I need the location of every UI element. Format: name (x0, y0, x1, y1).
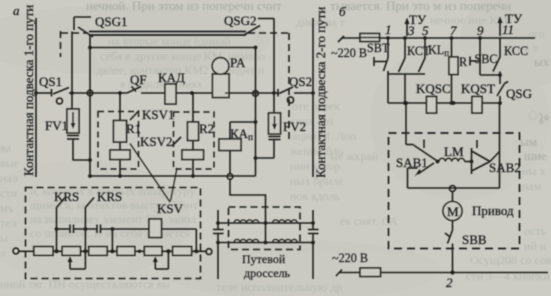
contact KSV1 slash (130, 111, 139, 121)
node junction at x72 (70, 91, 74, 95)
svg-text:Привод: Привод (472, 203, 514, 218)
wire (225, 92, 278, 94)
svg-text:3: 3 (407, 23, 415, 38)
svg-text:Осущ208 со сов: Осущ208 со сов (470, 253, 551, 267)
wire mid (388, 73, 425, 75)
wire resistor chain (19, 250, 34, 252)
dashed box KSV1/R1 (98, 112, 139, 170)
svg-text:ий н: ий н (524, 239, 547, 253)
dashed border part a top (61, 31, 290, 140)
svg-text:KQSC: KQSC (416, 81, 451, 96)
contact KCC (493, 38, 500, 84)
wire 220V bottom (336, 270, 548, 277)
wire to track choke (230, 180, 266, 224)
terminal circle right (206, 249, 212, 255)
svg-text:~220 В: ~220 В (331, 46, 367, 60)
node dot (254, 46, 258, 50)
svg-text:б: б (339, 4, 346, 19)
wire (135, 250, 145, 252)
wire FV2 jog (256, 157, 275, 159)
inductor coils top right (273, 220, 298, 223)
svg-text:R1: R1 (126, 121, 141, 136)
svg-text:KQST: KQST (461, 81, 495, 96)
svg-text:ны х: ны х (522, 164, 545, 178)
wire drops (56, 229, 58, 251)
resistor R (449, 38, 458, 105)
inductor coils bottom left (234, 239, 259, 242)
fuse top (360, 34, 380, 42)
resistor box 5 (144, 247, 162, 256)
telecontrol arrow TU 2 (498, 17, 503, 37)
svg-text:QS2: QS2 (289, 74, 312, 89)
node junction circle at x255 (253, 91, 259, 97)
resistor R2 branch (182, 91, 204, 178)
wire (294, 92, 313, 94)
arrester FV1 (67, 109, 79, 160)
wire (80, 250, 88, 252)
wire (53, 250, 62, 252)
relay KAD coil (165, 84, 176, 104)
svg-text:KSV2: KSV2 (140, 134, 173, 149)
svg-text:нов вдоль: нов вдоль (290, 189, 340, 203)
svg-text:KRS: KRS (54, 189, 79, 204)
svg-text:QSG: QSG (506, 86, 532, 101)
wire motor row (408, 187, 500, 189)
node: catenary line track 1 (35, 18, 37, 177)
wire vertical x90 (89, 35, 91, 176)
contact QSG aux (497, 82, 508, 105)
svg-text:FV2: FV2 (283, 119, 306, 134)
inductor coils bottom right (273, 239, 298, 242)
contact KRS 2 (85, 198, 94, 208)
svg-text:Контактная подвеска 1-го пути: Контактная подвеска 1-го пути (21, 5, 36, 176)
relay KA branch (219, 120, 257, 173)
svg-text:тел: тел (0, 216, 17, 230)
svg-text:QS1: QS1 (39, 74, 62, 89)
fuse bottom (360, 268, 381, 277)
svg-text:11: 11 (502, 22, 514, 37)
svg-text:КАД: КАД (158, 70, 185, 85)
wire vertical x72 (71, 32, 73, 110)
rail right with capacitor (308, 210, 319, 279)
svg-text:QF: QF (130, 72, 147, 87)
svg-text:SBC: SBC (475, 52, 498, 66)
svg-text:ость: ость (524, 224, 547, 238)
contact KRS 1 (57, 198, 66, 230)
resistor R1 branch (110, 91, 130, 178)
svg-text:сти: сти (0, 186, 18, 200)
svg-text:KSV1: KSV1 (142, 107, 175, 122)
wire bus double line (89, 31, 246, 33)
wire SAB1 feed (404, 101, 413, 144)
wire relay row (388, 102, 500, 104)
terminal circle motor (450, 186, 456, 192)
terminal circle left (13, 248, 19, 254)
svg-text:теле исполнительную др: теле исполнительную др (216, 280, 342, 294)
svg-text:KSV: KSV (157, 201, 184, 216)
svg-text:SAB1: SAB1 (396, 155, 428, 170)
resistor box 4 (117, 247, 135, 256)
capacitor 2 (97, 225, 101, 234)
svg-text:со штангой. И на себя вернется: со штангой. И на себя вернется (30, 226, 191, 240)
svg-text:R2: R2 (199, 121, 214, 136)
node junction at track2 (311, 91, 315, 95)
resistor box 2 (62, 247, 80, 256)
wire main feeder a (36, 92, 51, 94)
wiper arrow 2 (153, 251, 169, 269)
wire (162, 250, 173, 252)
svg-text:ых: ых (534, 54, 550, 69)
resistor box 1 (34, 247, 53, 256)
relay KQSC coil (427, 97, 437, 114)
svg-text:SAB2: SAB2 (489, 160, 521, 175)
svg-text:ого: ого (528, 27, 545, 41)
svg-text:дроссель: дроссель (244, 266, 291, 280)
svg-text:шие: шие (524, 148, 547, 163)
capacitor 1 (70, 225, 74, 234)
node junction circle KA-bus (227, 174, 233, 180)
contact SAB1 (408, 140, 437, 189)
svg-text:PA: PA (230, 55, 246, 70)
svg-text:КСС: КСС (504, 44, 528, 58)
svg-text:нечное ине КМ: нечное ине КМ (430, 13, 509, 27)
wire (141, 92, 165, 94)
relay KSV coil (149, 219, 162, 238)
svg-text:KRS: KRS (97, 189, 122, 204)
resistor box 6 (173, 247, 192, 256)
svg-text:нал: нал (0, 171, 18, 185)
wire single feeder line (90, 47, 256, 49)
svg-text:Контактная подвеска 2-го пути: Контактная подвеска 2-го пути (313, 7, 328, 178)
svg-text:SBT: SBT (367, 41, 390, 55)
wire FV1 to ground bus (73, 159, 91, 161)
wire capacitor line (57, 228, 197, 230)
wire (192, 250, 207, 252)
leader lines KSV (130, 144, 177, 203)
svg-text:9: 9 (477, 23, 484, 38)
wire choke top line (218, 222, 313, 224)
svg-text:мъ: мъ (0, 201, 14, 215)
contact SAB2 (472, 140, 500, 174)
svg-text:нам: нам (522, 179, 542, 193)
relay KQST coil (472, 97, 482, 114)
svg-text:1: 1 (385, 22, 392, 37)
node dot (254, 156, 258, 160)
wire choke bottom line (218, 242, 313, 244)
svg-text:ым: ым (520, 134, 537, 149)
svg-text:нечной. При этом из поперечн с: нечной. При этом из поперечн счит (86, 0, 282, 13)
contact KCT (399, 38, 406, 72)
arrester FV2 (269, 93, 281, 158)
wire (176, 92, 213, 94)
disconnector QS2 (278, 87, 294, 103)
svg-text:вые: вые (0, 156, 19, 170)
telecontrol arrow TU 1 (405, 18, 410, 37)
disconnector QSG2 bracket (244, 19, 274, 36)
svg-text:ек снят. СА: ек снят. СА (340, 214, 398, 228)
svg-text:FV1: FV1 (45, 118, 68, 133)
svg-text:≡: ≡ (0, 247, 7, 261)
disconnector QSG1 bracket (74, 17, 93, 37)
wire (107, 250, 117, 252)
wire bus lower line (89, 34, 246, 36)
button SBC (470, 38, 502, 77)
wire drop x405 (404, 74, 406, 103)
svg-text:~220 В: ~220 В (332, 251, 368, 265)
node junction circle at x90 on feeder (87, 90, 93, 96)
wire QSG2 drop (273, 28, 275, 93)
contact KL (419, 38, 426, 72)
wire bottom bus (90, 175, 256, 177)
wire vertical x255 (255, 48, 257, 177)
wire center drop (265, 223, 267, 243)
node dot (88, 174, 92, 178)
svg-text:R: R (459, 55, 468, 69)
svg-text:LM: LM (444, 144, 464, 159)
ammeter PA (212, 58, 229, 98)
dashed box track choke (229, 207, 301, 250)
wire (69, 92, 127, 94)
node: catenary line track 2 (312, 18, 314, 177)
svg-text:ва: ва (0, 141, 12, 155)
inductor coils top left (234, 220, 259, 223)
motor M drive (443, 192, 462, 231)
svg-text:QSG2: QSG2 (224, 13, 257, 28)
svg-text:а: а (13, 3, 20, 18)
disconnector QS1 (52, 88, 70, 105)
svg-text:на вторые конце единой: на вторые конце единой (108, 34, 231, 48)
node dot (88, 46, 92, 50)
svg-text:7: 7 (450, 23, 457, 38)
inductor LM (436, 158, 474, 163)
rail left with capacitor (213, 210, 224, 279)
circuit breaker QF (127, 87, 141, 94)
dashed box KRS filter (26, 188, 201, 279)
svg-text:ые жкрай: ые жкрай (330, 149, 379, 163)
node dots bus b (386, 36, 390, 40)
svg-text:ы: ы (0, 231, 8, 245)
node dots choke (264, 221, 268, 225)
svg-text:ും к: ും к (528, 108, 551, 124)
dashed box drive b (389, 133, 520, 249)
svg-text:М: М (447, 204, 459, 219)
wiper arrow 1 (68, 257, 86, 270)
svg-text:Путевой: Путевой (242, 252, 286, 266)
wire 220V supply top (338, 36, 344, 42)
node dot (452, 101, 456, 105)
svg-text:5: 5 (422, 23, 429, 38)
resistor box 3 (89, 247, 107, 256)
svg-text:сти 3—4 кнопки SBC или 5—4: сти 3—4 кнопки SBC или 5—4 (466, 269, 551, 283)
button SBB (445, 230, 453, 273)
button SBT (374, 38, 388, 103)
svg-text:SBB: SBB (462, 232, 487, 247)
svg-text:QSG1: QSG1 (95, 14, 128, 29)
node junction at x274 (272, 91, 276, 95)
wire QSG drop into box (499, 103, 501, 188)
dashed box KSV2/R2 (174, 112, 215, 169)
svg-text:2: 2 (446, 275, 453, 290)
contact KSV2 slash (172, 137, 181, 146)
node dot (88, 158, 92, 162)
